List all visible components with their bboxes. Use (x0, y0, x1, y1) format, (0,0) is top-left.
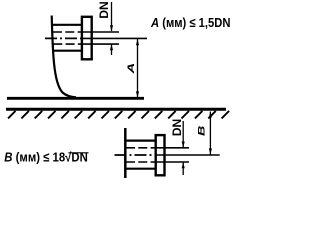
svg-text:B (мм) ≤ 18√DN: B (мм) ≤ 18√DN (4, 149, 87, 164)
svg-text:DN: DN (97, 1, 111, 18)
svg-text:B: B (196, 125, 206, 136)
svg-text:A (мм) ≤ 1,5DN: A (мм) ≤ 1,5DN (150, 15, 230, 30)
svg-text:A: A (126, 63, 136, 75)
svg-text:DN: DN (170, 119, 184, 136)
